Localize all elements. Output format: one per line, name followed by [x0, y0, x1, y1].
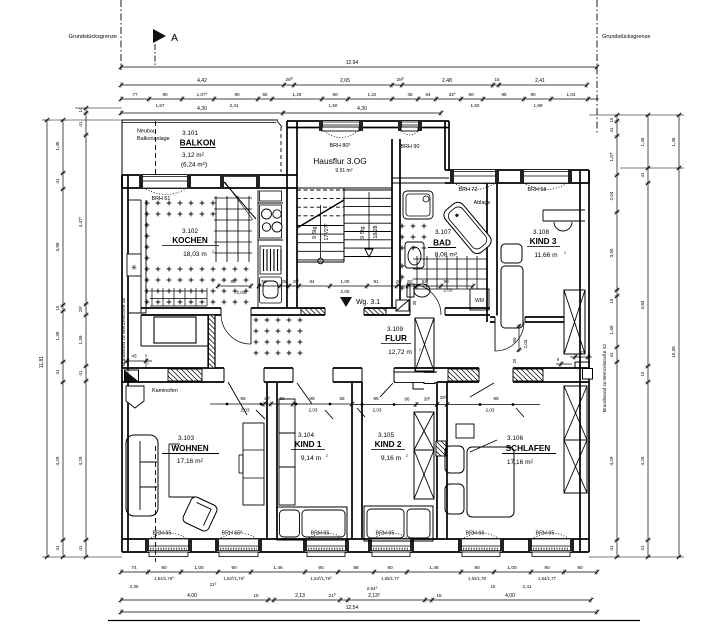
svg-text:1,645/1,765: 1,645/1,765 — [223, 575, 245, 581]
kamin dim — [124, 354, 152, 369]
door swing balkon — [224, 182, 256, 220]
bad bathtub — [441, 199, 494, 256]
kind3 bed — [501, 244, 523, 328]
svg-text:1,00: 1,00 — [341, 279, 350, 284]
right extension lines — [589, 115, 684, 557]
svg-text:BRH 90: BRH 90 — [401, 144, 420, 150]
dim kitchen door — [216, 279, 253, 295]
svg-text:Grundstücksgrenze: Grundstücksgrenze — [68, 34, 117, 40]
window stair BRH80 — [319, 121, 363, 149]
balkon labels — [137, 129, 216, 169]
balkon door opening — [220, 175, 260, 188]
wall bad-kind3 — [487, 183, 497, 322]
wohnen sofa — [126, 435, 158, 516]
svg-text:BRH 65: BRH 65 — [536, 531, 555, 537]
svg-text:BRH 805: BRH 805 — [330, 142, 351, 149]
window kind2 BRH65 — [368, 531, 414, 557]
svg-text:2,41: 2,41 — [230, 103, 239, 108]
svg-text:65: 65 — [262, 92, 268, 97]
svg-text:2,65: 2,65 — [340, 78, 350, 84]
svg-text:2: 2 — [326, 454, 328, 458]
svg-text:39: 39 — [412, 300, 417, 305]
flur shaft box — [424, 373, 435, 384]
kitchen counter — [258, 190, 283, 308]
kamin flue — [126, 386, 144, 408]
svg-text:2,03: 2,03 — [444, 288, 453, 293]
svg-text:1,45: 1,45 — [671, 137, 676, 146]
svg-text:11,81: 11,81 — [39, 356, 45, 368]
svg-text:Ablage: Ablage — [474, 200, 491, 206]
schlafen nightstand — [456, 424, 474, 438]
svg-text:1,26: 1,26 — [293, 92, 302, 97]
svg-text:9,16 m: 9,16 m — [381, 455, 402, 462]
svg-text:9,91 m2: 9,91 m2 — [335, 167, 352, 174]
svg-text:4,00: 4,00 — [187, 593, 197, 599]
right brandwand label — [602, 344, 608, 413]
kitchen tiles — [145, 201, 249, 305]
svg-text:2,04: 2,04 — [609, 191, 614, 200]
wall bad north — [392, 178, 449, 183]
svg-text:BRH 655: BRH 655 — [222, 530, 243, 537]
svg-text:84: 84 — [309, 279, 315, 284]
kitchen rack — [260, 246, 281, 274]
svg-text:41: 41 — [640, 172, 645, 177]
svg-text:BRH 58: BRH 58 — [528, 187, 547, 193]
left dim chain middle — [55, 118, 66, 559]
svg-text:Balkonanlage: Balkonanlage — [137, 136, 170, 142]
svg-text:15: 15 — [640, 371, 645, 376]
svg-text:1,64/1,765: 1,64/1,765 — [154, 575, 174, 581]
svg-text:9 Stg.: 9 Stg. — [360, 225, 366, 239]
flur labels — [381, 326, 421, 356]
svg-text:KOCHEN: KOCHEN — [172, 236, 208, 245]
window schlafen 1 BRH66 — [458, 531, 504, 557]
svg-text:KIND 3: KIND 3 — [530, 237, 557, 246]
schlafen wardrobe — [564, 386, 587, 493]
wall wohnen-kind1 — [267, 382, 277, 539]
top dim row3 sublabels — [156, 103, 543, 108]
svg-text:SCHLAFEN: SCHLAFEN — [506, 444, 551, 453]
svg-text:94: 94 — [425, 92, 431, 97]
kamin label — [152, 388, 178, 394]
bad tile grid — [413, 256, 487, 289]
kind3 desk — [543, 210, 585, 231]
svg-text:95: 95 — [373, 396, 379, 402]
wohnen labels — [162, 435, 219, 465]
svg-text:90: 90 — [577, 565, 583, 571]
svg-text:1,46: 1,46 — [429, 565, 439, 571]
svg-text:90: 90 — [318, 565, 324, 571]
kind1 labels — [291, 432, 328, 462]
property line left (Grundstuecksgrenze) — [68, 0, 121, 70]
bad washbasin — [405, 242, 424, 268]
svg-text:17,16 m2: 17,16 m2 — [507, 458, 534, 466]
wall north of kitchen (balkon wall) — [122, 175, 297, 188]
wohnen table — [169, 444, 196, 497]
svg-text:15: 15 — [436, 593, 442, 598]
svg-text:Hausflur 3.OG: Hausflur 3.OG — [313, 156, 367, 166]
left dim chain outer 11,81 — [39, 118, 50, 559]
door gap apartment entry — [325, 307, 364, 317]
bad shaft box — [396, 300, 409, 311]
svg-text:4,29: 4,29 — [640, 456, 645, 465]
top dim row 12,94 — [119, 60, 599, 70]
dim bad small — [412, 300, 417, 305]
svg-text:90: 90 — [332, 92, 338, 97]
balkon axis line — [155, 121, 157, 174]
wall flur north band — [141, 308, 490, 315]
svg-text:2,03: 2,03 — [486, 408, 495, 413]
svg-text:3,90: 3,90 — [55, 242, 60, 251]
window kind3 BRH58 — [520, 170, 572, 193]
svg-text:41: 41 — [78, 121, 83, 127]
svg-text:20: 20 — [512, 358, 517, 363]
svg-text:2,00: 2,00 — [341, 289, 350, 294]
svg-text:BRH 61: BRH 61 — [152, 196, 171, 202]
svg-text:3.107: 3.107 — [435, 229, 451, 236]
svg-text:1,50: 1,50 — [329, 103, 338, 108]
door swing kind1 — [297, 383, 333, 419]
svg-text:90: 90 — [162, 92, 168, 97]
svg-text:2,48: 2,48 — [442, 78, 452, 84]
wall flur west — [208, 315, 215, 368]
svg-text:✳: ✳ — [131, 263, 138, 272]
kitchen stove — [260, 205, 283, 238]
door gap wohnen — [224, 366, 264, 384]
svg-text:2: 2 — [564, 251, 566, 255]
kitchen pantry — [141, 315, 208, 346]
balkon outline — [122, 120, 282, 175]
svg-text:2,13: 2,13 — [295, 593, 305, 599]
kind3 corner step — [575, 362, 589, 368]
svg-text:2,41: 2,41 — [535, 78, 545, 84]
svg-text:1,60: 1,60 — [471, 103, 480, 108]
kind2 bed — [364, 506, 433, 541]
svg-text:175/275: 175/275 — [323, 224, 330, 241]
dim hausflur bottom — [257, 278, 475, 294]
hatch flur south 4 — [448, 369, 479, 381]
svg-text:1,39: 1,39 — [609, 325, 614, 334]
svg-text:1,45: 1,45 — [640, 137, 645, 146]
svg-text:8,08 m2: 8,08 m2 — [435, 251, 458, 259]
svg-text:BRH 66: BRH 66 — [466, 531, 485, 537]
dim kamin small2 — [128, 352, 147, 374]
svg-text:BRH 65: BRH 65 — [311, 531, 330, 537]
door gap kind2 — [362, 366, 394, 384]
kamin black box — [125, 370, 139, 382]
wall stair shaft right — [392, 139, 400, 308]
svg-text:4,29: 4,29 — [78, 456, 83, 465]
left extension lines — [42, 108, 122, 557]
svg-text:2,03: 2,03 — [373, 408, 382, 413]
svg-text:Neubau: Neubau — [137, 129, 156, 135]
wohnen dashline — [155, 446, 157, 562]
svg-text:BRH 65: BRH 65 — [376, 531, 395, 537]
bad labels — [428, 229, 458, 259]
door swing kind2 — [357, 383, 393, 417]
svg-text:1,22: 1,22 — [368, 92, 377, 97]
svg-text:3.109: 3.109 — [387, 326, 403, 333]
svg-text:15: 15 — [609, 117, 614, 122]
svg-text:3.104: 3.104 — [298, 432, 314, 439]
kind3 corner wardrobe — [564, 290, 585, 354]
schlafen labels — [470, 435, 556, 466]
svg-text:1,46: 1,46 — [273, 565, 283, 571]
right dim chain 3 — [671, 113, 682, 559]
svg-text:1,45: 1,45 — [55, 141, 60, 150]
svg-text:4,84: 4,84 — [640, 300, 645, 309]
flur wall thin piece — [394, 372, 437, 382]
wall stairwell step right — [445, 121, 449, 170]
wohnen armchair — [181, 495, 218, 532]
svg-text:90: 90 — [387, 565, 393, 571]
top dim row 4,30 — [119, 106, 443, 116]
bottom dim rowA — [119, 565, 599, 575]
svg-text:90: 90 — [512, 337, 517, 343]
svg-text:41: 41 — [55, 545, 60, 551]
svg-text:3.108: 3.108 — [533, 229, 549, 236]
svg-text:1,635/1,765: 1,635/1,765 — [310, 575, 332, 581]
svg-text:58: 58 — [261, 279, 267, 284]
svg-text:11,66 m: 11,66 m — [534, 252, 558, 259]
hatch flur north 2 — [364, 309, 386, 315]
svg-text:15: 15 — [55, 305, 60, 310]
window wohnen 1 BRH65 — [145, 531, 192, 557]
window bad BRH72 — [450, 170, 499, 206]
svg-text:77: 77 — [132, 92, 138, 97]
svg-text:41: 41 — [78, 370, 83, 376]
svg-text:1,64/1,77: 1,64/1,77 — [538, 576, 557, 581]
wall top right section — [445, 170, 589, 183]
top dim row2 — [119, 76, 589, 87]
dim flur doors right — [352, 394, 540, 412]
kind2 wall chimney hatch — [436, 441, 446, 456]
svg-text:Brandwand zu Wenzelstraße 42: Brandwand zu Wenzelstraße 42 — [602, 344, 608, 413]
svg-text:2,03: 2,03 — [523, 339, 528, 348]
svg-text:60: 60 — [279, 396, 285, 401]
door swing kitchen — [221, 315, 251, 344]
svg-text:12,94: 12,94 — [346, 60, 359, 66]
svg-text:74: 74 — [131, 565, 137, 571]
svg-text:1,00: 1,00 — [194, 565, 204, 571]
wall stairwell top — [287, 121, 449, 128]
bottom dim rowB — [119, 592, 593, 602]
svg-text:41: 41 — [55, 178, 60, 184]
hatch flur north 1 — [301, 309, 325, 315]
svg-text:2: 2 — [419, 348, 421, 352]
svg-text:BRH 72: BRH 72 — [459, 187, 478, 193]
svg-text:4,30: 4,30 — [197, 106, 207, 112]
bad wm — [470, 289, 489, 310]
kind3 labels — [527, 229, 566, 259]
right dim chain 2 — [640, 113, 651, 559]
stairs cut line — [297, 200, 344, 228]
wall kind2-schlafen — [437, 382, 447, 539]
svg-text:15: 15 — [491, 584, 496, 589]
svg-text:3.101: 3.101 — [182, 130, 198, 137]
svg-text:90: 90 — [231, 565, 237, 571]
svg-text:2,03: 2,03 — [309, 408, 318, 413]
hausflur labels — [313, 156, 367, 174]
svg-text:18,03 m: 18,03 m — [183, 251, 207, 258]
window kind1 BRH65 — [303, 531, 349, 557]
stairs treads — [297, 188, 392, 262]
door gap schlafen — [479, 366, 513, 384]
right dim chain 1 — [609, 113, 620, 559]
bottom base line — [108, 620, 640, 622]
svg-text:41: 41 — [78, 545, 83, 551]
svg-text:18/28: 18/28 — [373, 225, 379, 238]
svg-text:66: 66 — [404, 397, 410, 402]
bottom dim rowA sublabels — [130, 575, 557, 591]
svg-text:4,30: 4,30 — [357, 106, 367, 112]
svg-text:1,07: 1,07 — [609, 152, 614, 161]
top dim row3 — [119, 91, 599, 101]
svg-text:12,54: 12,54 — [346, 605, 359, 611]
wohnen shelf — [239, 423, 264, 505]
svg-text:90: 90 — [234, 92, 240, 97]
svg-text:17,16 m2: 17,16 m2 — [177, 457, 204, 465]
svg-text:Wg. 3.1: Wg. 3.1 — [356, 299, 380, 306]
svg-text:KIND 1: KIND 1 — [295, 440, 322, 449]
hatch flur south 3 — [513, 369, 543, 381]
bad tiles — [400, 224, 427, 291]
svg-text:95: 95 — [309, 396, 315, 402]
svg-text:WOHNEN: WOHNEN — [171, 444, 208, 453]
dim kind3 door — [512, 324, 528, 364]
kind2 wardrobe — [414, 412, 434, 499]
svg-text:10,36: 10,36 — [671, 346, 676, 358]
door swing wohnen — [228, 382, 265, 419]
kind1 wardrobe — [279, 399, 295, 505]
svg-text:15: 15 — [494, 77, 500, 82]
svg-text:81: 81 — [373, 279, 379, 284]
flur wall step kind2 — [394, 382, 424, 389]
svg-text:2: 2 — [406, 454, 408, 458]
wall kitchen-stair shaft — [287, 121, 297, 308]
kitchen chimney box — [127, 254, 141, 276]
stairs labels — [312, 224, 379, 241]
door gap kind3 — [495, 316, 525, 324]
svg-text:3.105: 3.105 — [378, 432, 394, 439]
bad wc — [407, 284, 430, 297]
svg-text:90: 90 — [230, 279, 236, 284]
svg-text:1,65/1,77: 1,65/1,77 — [381, 576, 400, 581]
door swing bad — [410, 284, 441, 315]
wall flur south band — [122, 368, 589, 382]
svg-text:43: 43 — [131, 354, 137, 359]
svg-text:FLUR: FLUR — [385, 334, 407, 343]
svg-text:4,00: 4,00 — [505, 593, 515, 599]
svg-text:15: 15 — [253, 593, 259, 598]
svg-text:1,04: 1,04 — [567, 92, 576, 97]
svg-text:32: 32 — [579, 350, 585, 355]
svg-text:9 Stg.: 9 Stg. — [312, 225, 318, 239]
door swing kind3 — [495, 322, 524, 351]
hatch flur south 1 — [168, 369, 202, 381]
svg-text:41: 41 — [609, 352, 614, 357]
door swing schlafen — [470, 383, 524, 417]
svg-text:5: 5 — [145, 354, 147, 358]
door gap kitchen — [221, 306, 251, 317]
window wohnen 2 BRH65-5 — [215, 530, 262, 557]
svg-text:Grundstücksgrenze: Grundstücksgrenze — [602, 34, 651, 40]
svg-text:95: 95 — [493, 396, 499, 402]
schlafen bed — [445, 446, 514, 517]
svg-text:3.103: 3.103 — [178, 435, 194, 442]
svg-text:1,67: 1,67 — [156, 103, 165, 108]
flur wardrobe — [415, 318, 434, 371]
svg-text:90: 90 — [468, 92, 474, 97]
svg-text:3.102: 3.102 — [182, 228, 198, 235]
wall kind1-kind2 — [352, 382, 362, 539]
svg-text:2: 2 — [212, 250, 214, 254]
svg-text:41: 41 — [609, 545, 614, 551]
corner chimney box — [583, 369, 593, 380]
svg-text:1,69: 1,69 — [534, 103, 543, 108]
svg-text:90: 90 — [443, 279, 449, 284]
kitchen niche wall — [128, 200, 146, 313]
north arrow A — [153, 29, 178, 66]
svg-text:4,42: 4,42 — [197, 78, 207, 84]
svg-text:4,29: 4,29 — [609, 456, 614, 465]
svg-text:1,39: 1,39 — [55, 331, 60, 340]
svg-text:1,39: 1,39 — [78, 335, 83, 344]
kitchen labels — [162, 228, 219, 258]
svg-text:4,29: 4,29 — [55, 456, 60, 465]
svg-text:1,64/1,78: 1,64/1,78 — [468, 576, 487, 581]
svg-text:2,30: 2,30 — [130, 584, 139, 589]
property line right (Grundstuecksgrenze) — [597, 0, 651, 133]
svg-text:90: 90 — [161, 565, 167, 571]
kitchen tile grid — [150, 196, 252, 306]
kind1 bed — [277, 507, 347, 540]
svg-text:58: 58 — [339, 396, 345, 401]
svg-text:3,12 m2: 3,12 m2 — [182, 151, 205, 159]
svg-text:3,30: 3,30 — [609, 248, 614, 257]
svg-text:90: 90 — [474, 565, 480, 571]
flur tiles — [254, 318, 303, 356]
stairs arrow left — [318, 205, 324, 264]
svg-text:BAD: BAD — [433, 239, 451, 248]
door swing entry — [340, 297, 380, 307]
window kitchen north BRH61 — [139, 175, 191, 203]
svg-text:KIND 2: KIND 2 — [375, 440, 402, 449]
svg-text:9,14 m: 9,14 m — [301, 455, 322, 462]
kind2 labels — [371, 432, 408, 462]
svg-text:WM: WM — [475, 298, 484, 304]
svg-text:95: 95 — [240, 396, 246, 402]
wall kind3 south — [490, 317, 564, 322]
wall exterior right — [580, 170, 589, 552]
left dim chain inner — [77, 106, 88, 559]
bad shower — [403, 191, 433, 219]
svg-text:Kaminofen: Kaminofen — [152, 388, 178, 394]
dim flur doors left — [210, 395, 354, 412]
dim schlafen corner — [556, 350, 592, 367]
wall exterior left — [122, 175, 128, 552]
left brandwand label — [121, 298, 127, 367]
svg-text:BALKON: BALKON — [180, 138, 216, 148]
svg-text:98: 98 — [353, 565, 359, 571]
svg-text:15: 15 — [609, 298, 614, 303]
svg-text:95: 95 — [501, 92, 507, 97]
window schlafen 2 BRH65 — [528, 531, 574, 557]
svg-text:41: 41 — [609, 127, 614, 132]
window stair BRH90 — [398, 121, 422, 150]
svg-text:25: 25 — [281, 279, 287, 284]
svg-text:1,00: 1,00 — [507, 565, 517, 571]
